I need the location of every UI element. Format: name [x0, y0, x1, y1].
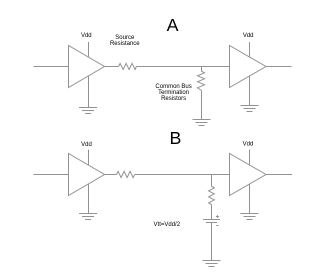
wire output A	[266, 66, 292, 68]
power Vdd pin U4	[249, 150, 251, 165]
resistor R3 source resistance	[117, 171, 135, 177]
ground U2	[241, 76, 259, 112]
power Vdd pin U2	[249, 42, 251, 57]
svg-text:Resistors: Resistors	[161, 96, 186, 102]
plus sign polarity	[216, 215, 219, 218]
op-amp U3 driver buffer	[69, 154, 105, 196]
ground U3	[79, 184, 97, 220]
wire U3 output to resistor	[105, 174, 117, 176]
svg-text:Source: Source	[115, 35, 135, 41]
wire input A	[34, 66, 69, 68]
svg-text:Vdd: Vdd	[243, 33, 254, 39]
voltage source V1 Vtt battery	[203, 220, 220, 223]
ground U4	[241, 184, 259, 220]
section label B	[169, 128, 181, 148]
svg-text:Vdd: Vdd	[81, 142, 92, 148]
power Vdd label U4	[243, 142, 254, 148]
svg-text:Vtt=Vdd/2: Vtt=Vdd/2	[154, 222, 181, 228]
wire input B	[34, 174, 69, 176]
wire U1 output to resistor	[105, 66, 119, 68]
svg-text:A: A	[167, 15, 179, 35]
ground termination A	[193, 120, 211, 126]
wire R2 to ground	[201, 91, 203, 120]
section label A	[167, 15, 179, 35]
resistor R4 termination to Vtt	[209, 175, 215, 205]
wire R4 to source	[211, 205, 213, 220]
label Vtt=Vdd/2	[154, 222, 181, 228]
power Vdd label U1	[81, 33, 92, 39]
label Common Bus Termination Resistors	[155, 84, 191, 102]
op-amp U1 driver buffer	[69, 46, 105, 88]
wire V1 to ground	[211, 223, 213, 261]
power Vdd pin U1	[88, 42, 90, 57]
wire output B	[266, 174, 292, 176]
op-amp U4 receiver buffer	[230, 154, 267, 196]
wire bus A	[136, 66, 229, 68]
svg-text:Vdd: Vdd	[81, 33, 92, 39]
power Vdd label U3	[81, 142, 92, 148]
minus sign polarity	[216, 225, 218, 227]
label Source Resistance	[110, 35, 140, 47]
ground U1	[79, 76, 97, 114]
ground V1	[203, 261, 221, 267]
power Vdd label U2	[243, 33, 254, 39]
resistor R1 source resistance	[119, 63, 137, 69]
resistor R2 common bus termination	[198, 67, 205, 91]
op-amp U2 receiver buffer	[230, 46, 267, 88]
power Vdd pin U3	[88, 150, 90, 166]
svg-text:Vdd: Vdd	[243, 142, 254, 148]
svg-text:B: B	[169, 128, 181, 148]
wire bus B	[135, 174, 230, 176]
svg-text:Resistance: Resistance	[110, 41, 140, 47]
